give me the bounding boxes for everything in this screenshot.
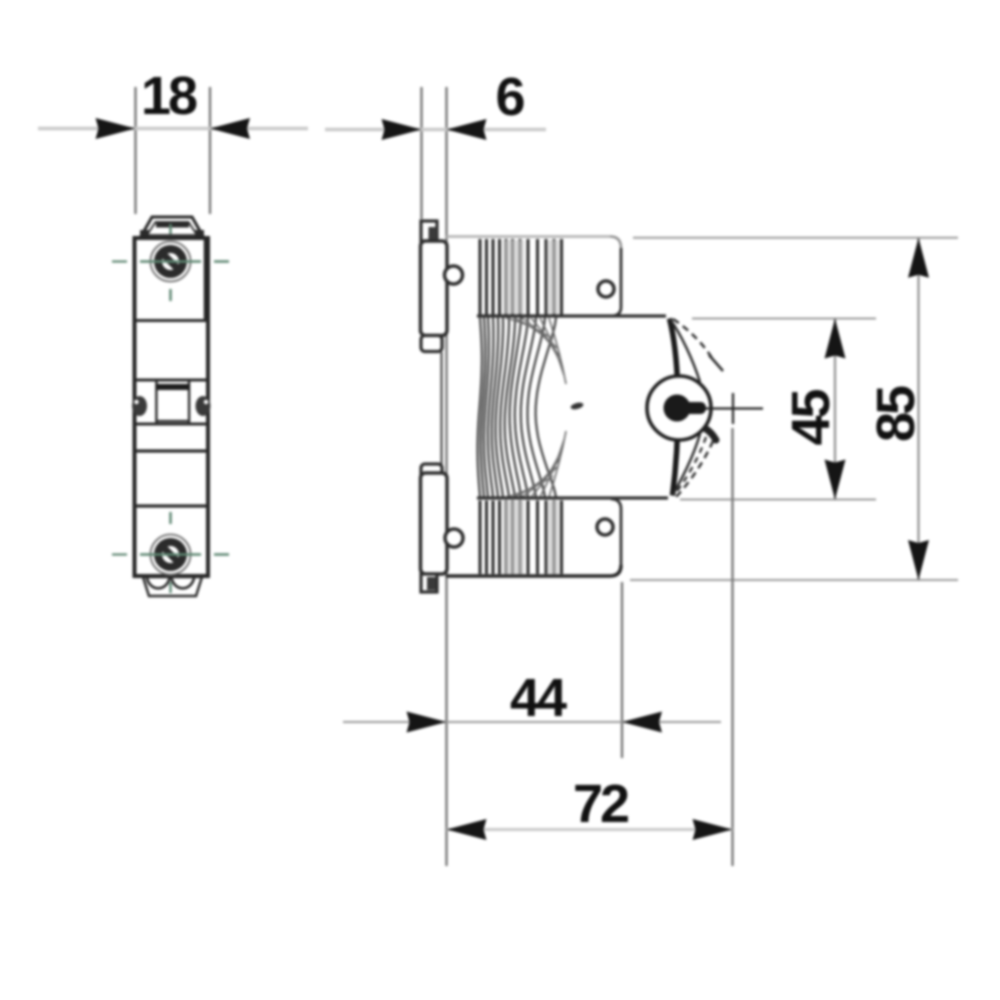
dimension 85 arrow bottom <box>908 540 929 580</box>
side view: upper dash tick <box>709 355 723 371</box>
side view: middle band crosshatch top <box>506 318 566 384</box>
front view: foot scallop left <box>147 578 170 588</box>
dimension 85 line <box>917 238 919 580</box>
side view: top band rivet circle <box>598 281 614 297</box>
front view: top screw green centerline <box>112 224 229 301</box>
front view: top cap inner line <box>147 222 197 235</box>
side view: channel inner line <box>440 352 442 466</box>
side view: bottom band bottom edge <box>446 565 621 576</box>
svg-text:45: 45 <box>781 390 841 446</box>
side view: middle band S-curves <box>478 318 557 498</box>
front view: foot scallop right <box>172 578 195 588</box>
side view: top band top edge (light) <box>446 235 610 238</box>
dimension 72 line <box>447 828 733 831</box>
front view: section line y506 <box>135 504 208 507</box>
dimension 45 extension top <box>692 318 876 320</box>
side view: lower blade dashed inner <box>675 437 706 494</box>
side view: bottom clip lip <box>421 464 442 480</box>
dimension 18 arrow right <box>210 118 250 139</box>
front view: right edge recess blob <box>196 396 211 416</box>
dimension 18 arrow left <box>96 118 136 139</box>
front view: section line y451 <box>135 449 208 452</box>
side view: handle center cross horizontal <box>705 407 763 409</box>
front view: main body outline <box>135 238 209 576</box>
dimension 44 line <box>343 721 721 723</box>
front view: right edge thick segment <box>204 239 209 320</box>
side view: handle center cross vertical <box>732 393 734 424</box>
side view: lower blade edge <box>673 434 701 496</box>
side view: top band bottom-right corner <box>611 307 621 316</box>
side view: bottom clip block <box>421 473 448 574</box>
side view: latch hook blob <box>688 425 716 440</box>
front view: toggle knob <box>157 385 190 421</box>
dimension 85 extension bottom <box>630 579 958 581</box>
side view: bottom clip circle <box>445 529 463 547</box>
side view: bottom band right edge <box>620 509 623 565</box>
dimension 45 arrow top <box>825 319 846 359</box>
dimension 6 arrow left <box>382 119 422 140</box>
dimension 72 extension right <box>731 428 733 866</box>
front view: toggle knob top bar <box>157 384 190 390</box>
side view: top band top-right corner <box>610 237 621 249</box>
front view: section line y424 <box>135 423 208 426</box>
svg-text:44: 44 <box>510 668 567 728</box>
side view: upper blade dashed <box>673 319 713 360</box>
dimension 45 arrow bottom <box>825 460 846 500</box>
side view: top clip block <box>421 241 448 336</box>
dimension 6 arrow right <box>447 119 487 140</box>
dimension 18 line <box>38 127 308 131</box>
dimension 45 extension bottom <box>680 499 876 501</box>
svg-text:85: 85 <box>866 386 926 442</box>
front view: top cap inner dark bar <box>156 223 189 228</box>
dimension 44 arrow right (outside) <box>622 712 662 733</box>
front view: bottom terminal screw <box>151 535 191 575</box>
side view: bottom band rivet circle <box>597 519 613 535</box>
dimension 72 arrow left (inside) <box>447 819 487 840</box>
svg-text:72: 72 <box>573 774 628 834</box>
side view: top band right edge <box>620 248 623 307</box>
dimension 18 extension line left <box>134 87 136 214</box>
side view: top hook <box>421 221 437 241</box>
dimension 18 extension line right <box>209 87 211 214</box>
front view: left edge recess blob <box>132 396 147 416</box>
front view: toggle left guide <box>155 380 158 424</box>
dimension 85 arrow top <box>908 238 929 278</box>
front view: foot green dash <box>169 582 172 593</box>
side view: pivot outer circle <box>647 376 711 440</box>
dimension 72 arrow right (inside) <box>693 819 733 840</box>
front view: section line y320 <box>135 319 208 322</box>
dimension 45 line <box>834 319 836 500</box>
dimension 44 arrow left (outside) <box>407 712 447 733</box>
front view: top terminal screw <box>151 242 191 282</box>
svg-text:18: 18 <box>141 66 197 126</box>
front view: bottom foot trapezoid <box>143 577 202 596</box>
front view: section line y380 <box>135 379 208 382</box>
side view: bottom hook <box>421 574 437 592</box>
side view: bottom band top-right corner <box>611 499 621 509</box>
side view: top clip lip <box>421 336 442 352</box>
front view: top cap outer trapezoid <box>140 217 204 238</box>
side view: top clip circle <box>445 266 463 284</box>
side view: toggle thick front arc <box>670 319 679 496</box>
dimension 6 / body-face long extension line <box>445 87 447 866</box>
dimension 6 extension line left <box>420 87 422 219</box>
dimension 6 line <box>325 128 546 132</box>
side view: lower blade dashed <box>676 441 713 497</box>
front view: bottom screw green centerline <box>112 512 229 593</box>
front view: toggle right guide <box>188 380 191 424</box>
side view: pivot center <box>664 395 691 422</box>
dimension 44 extension right <box>621 582 623 758</box>
side view: bottom band hatch <box>480 501 562 575</box>
svg-text:6: 6 <box>495 67 524 127</box>
side view: separator bottom <box>477 496 668 499</box>
side view: top band hatch <box>480 239 562 315</box>
side view: separator top <box>477 314 666 317</box>
side view: middle band small mark <box>570 401 584 410</box>
side view: middle band crosshatch bottom <box>506 431 566 497</box>
dimension 85 extension top <box>633 237 958 239</box>
side view: upper blade edge <box>670 319 701 383</box>
